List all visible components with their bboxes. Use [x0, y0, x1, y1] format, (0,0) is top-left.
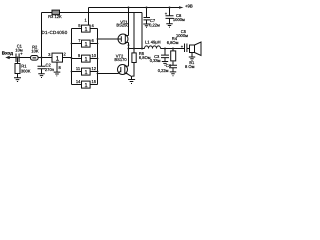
resistor R2 [31, 56, 39, 61]
buffer U1a box [52, 53, 63, 62]
wire feedback horizontal [42, 12, 143, 14]
wire input [10, 57, 16, 59]
ground C4 [170, 72, 176, 76]
wire VT1 source [128, 8, 130, 36]
svg-text:1: 1 [85, 70, 88, 76]
svg-text:1: 1 [85, 83, 88, 89]
resistor R1 [17, 58, 19, 64]
ground C7 [143, 24, 149, 27]
inductor L1 [145, 46, 161, 49]
svg-text:12: 12 [92, 66, 97, 71]
junction right bus VT2 gate [97, 73, 99, 75]
capacitor C3 [161, 49, 169, 62]
junction C7 on rail [146, 7, 148, 9]
capacitor C1 [16, 54, 19, 63]
svg-text:0,22м: 0,22м [149, 22, 160, 27]
resistor R4 [172, 49, 174, 51]
junction feedback on output [141, 48, 143, 50]
capacitor C7 [144, 8, 151, 25]
resistor R3 [52, 10, 60, 15]
svg-text:1: 1 [56, 56, 60, 63]
arrow VT1 drain [127, 45, 129, 48]
buffer U1e box [82, 68, 91, 75]
buffer U1f box [82, 81, 91, 88]
wire pin2 out [63, 57, 72, 59]
svg-text:0,22м: 0,22м [158, 68, 169, 73]
labels [2, 4, 195, 89]
ground pin8 [54, 72, 61, 76]
wire feedback drop to output [141, 13, 143, 49]
svg-text:10: 10 [92, 53, 97, 58]
svg-text:4: 4 [92, 23, 95, 28]
wire C1 to R2 [19, 57, 30, 59]
svg-text:5: 5 [78, 23, 81, 28]
svg-text:1: 1 [85, 57, 88, 63]
wire VT2 source [127, 73, 132, 79]
svg-text:L1 49μH: L1 49μH [145, 40, 161, 45]
svg-text:BS170: BS170 [114, 57, 127, 62]
svg-text:+9В: +9В [185, 4, 193, 9]
wire right bus [97, 29, 99, 85]
node +9V arrowhead [179, 6, 184, 9]
wire feedback vertical left [41, 13, 43, 58]
ground VT2 [128, 80, 135, 84]
ground C2 [38, 74, 44, 78]
svg-text:BS250: BS250 [116, 23, 129, 28]
svg-text:D1-CD4050: D1-CD4050 [42, 30, 68, 35]
svg-text:15: 15 [92, 79, 97, 84]
ground speaker [189, 57, 195, 60]
junction R5 on output [133, 48, 135, 50]
junction R4 tap [172, 48, 174, 50]
capacitor C4 [169, 62, 177, 72]
svg-text:14: 14 [76, 79, 81, 84]
junction right bus row3 [97, 58, 99, 60]
svg-text:1: 1 [85, 42, 88, 48]
wire feedback down right [133, 13, 135, 53]
wire pin1 supply drop [88, 8, 90, 26]
svg-text:270п: 270п [45, 67, 54, 72]
svg-text:+: + [165, 11, 168, 16]
buffer U1c box [82, 40, 91, 47]
svg-text:11: 11 [76, 66, 81, 71]
svg-text:7: 7 [78, 38, 81, 43]
capacitor C2 [38, 58, 46, 74]
junction right bus VT1 gate [97, 38, 99, 40]
wire speaker gnd [191, 53, 193, 58]
svg-text:8 Ом: 8 Ом [185, 64, 195, 69]
wire left bus [71, 29, 73, 85]
wire R2 to pin3 [38, 57, 52, 59]
wire C5 to speaker [187, 48, 189, 50]
svg-text:0,33м: 0,33м [150, 58, 161, 63]
speaker B1 [190, 45, 195, 53]
junction left bus row2 [71, 43, 73, 45]
svg-text:6: 6 [92, 38, 95, 43]
svg-text:3: 3 [48, 52, 51, 57]
transistor VT1 [118, 34, 128, 44]
junction C8 on rail [169, 7, 171, 9]
ground C8 [166, 24, 172, 27]
wire VT1 drain [128, 43, 130, 49]
wire output node [129, 48, 145, 50]
svg-text:1000м: 1000м [173, 17, 185, 22]
capacitor C5 [185, 44, 187, 53]
wire row outs right [90, 29, 97, 85]
resistor R5 [132, 53, 136, 63]
svg-text:+: + [20, 51, 23, 56]
wire pin8 [56, 62, 58, 72]
wire row feeds left [72, 29, 82, 85]
svg-text:9: 9 [78, 53, 81, 58]
wire L1 to C5 [161, 48, 185, 50]
capacitor C8 [166, 8, 174, 24]
svg-text:6,8Ом: 6,8Ом [167, 40, 179, 45]
junction left bus row4 [71, 71, 73, 73]
buffer U1d box [82, 55, 91, 62]
ground R1 [14, 78, 21, 82]
svg-text:2: 2 [64, 51, 67, 56]
junction pin3 node [41, 57, 43, 59]
wire R5 bottom [132, 63, 134, 77]
svg-text:1: 1 [85, 27, 88, 33]
junction right bus row2 [97, 43, 99, 45]
wire VT2 gate [98, 73, 119, 75]
svg-text:R3 12K: R3 12K [48, 14, 62, 19]
buffer U1b box [82, 25, 91, 32]
svg-text:Вход: Вход [2, 51, 13, 56]
svg-text:300K: 300K [21, 68, 31, 73]
wire VT2 drain [128, 49, 130, 67]
wire VT1 gate [98, 38, 118, 40]
junction output drain node [128, 48, 130, 50]
svg-text:10K: 10K [31, 49, 39, 54]
junction VT1 source on rail [128, 7, 130, 9]
junction R1 tap [17, 57, 19, 59]
svg-text:1: 1 [85, 18, 88, 23]
svg-text:8: 8 [59, 65, 62, 70]
ground C3 [162, 62, 168, 66]
junction C3 tap [164, 48, 166, 50]
svg-text:1000м: 1000м [176, 33, 188, 38]
transistor VT2 [118, 65, 128, 75]
node input arrowhead [5, 56, 9, 59]
junction right bus row4 [97, 71, 99, 73]
junction left bus row3 [71, 57, 73, 59]
wire +9V rail [89, 7, 180, 9]
